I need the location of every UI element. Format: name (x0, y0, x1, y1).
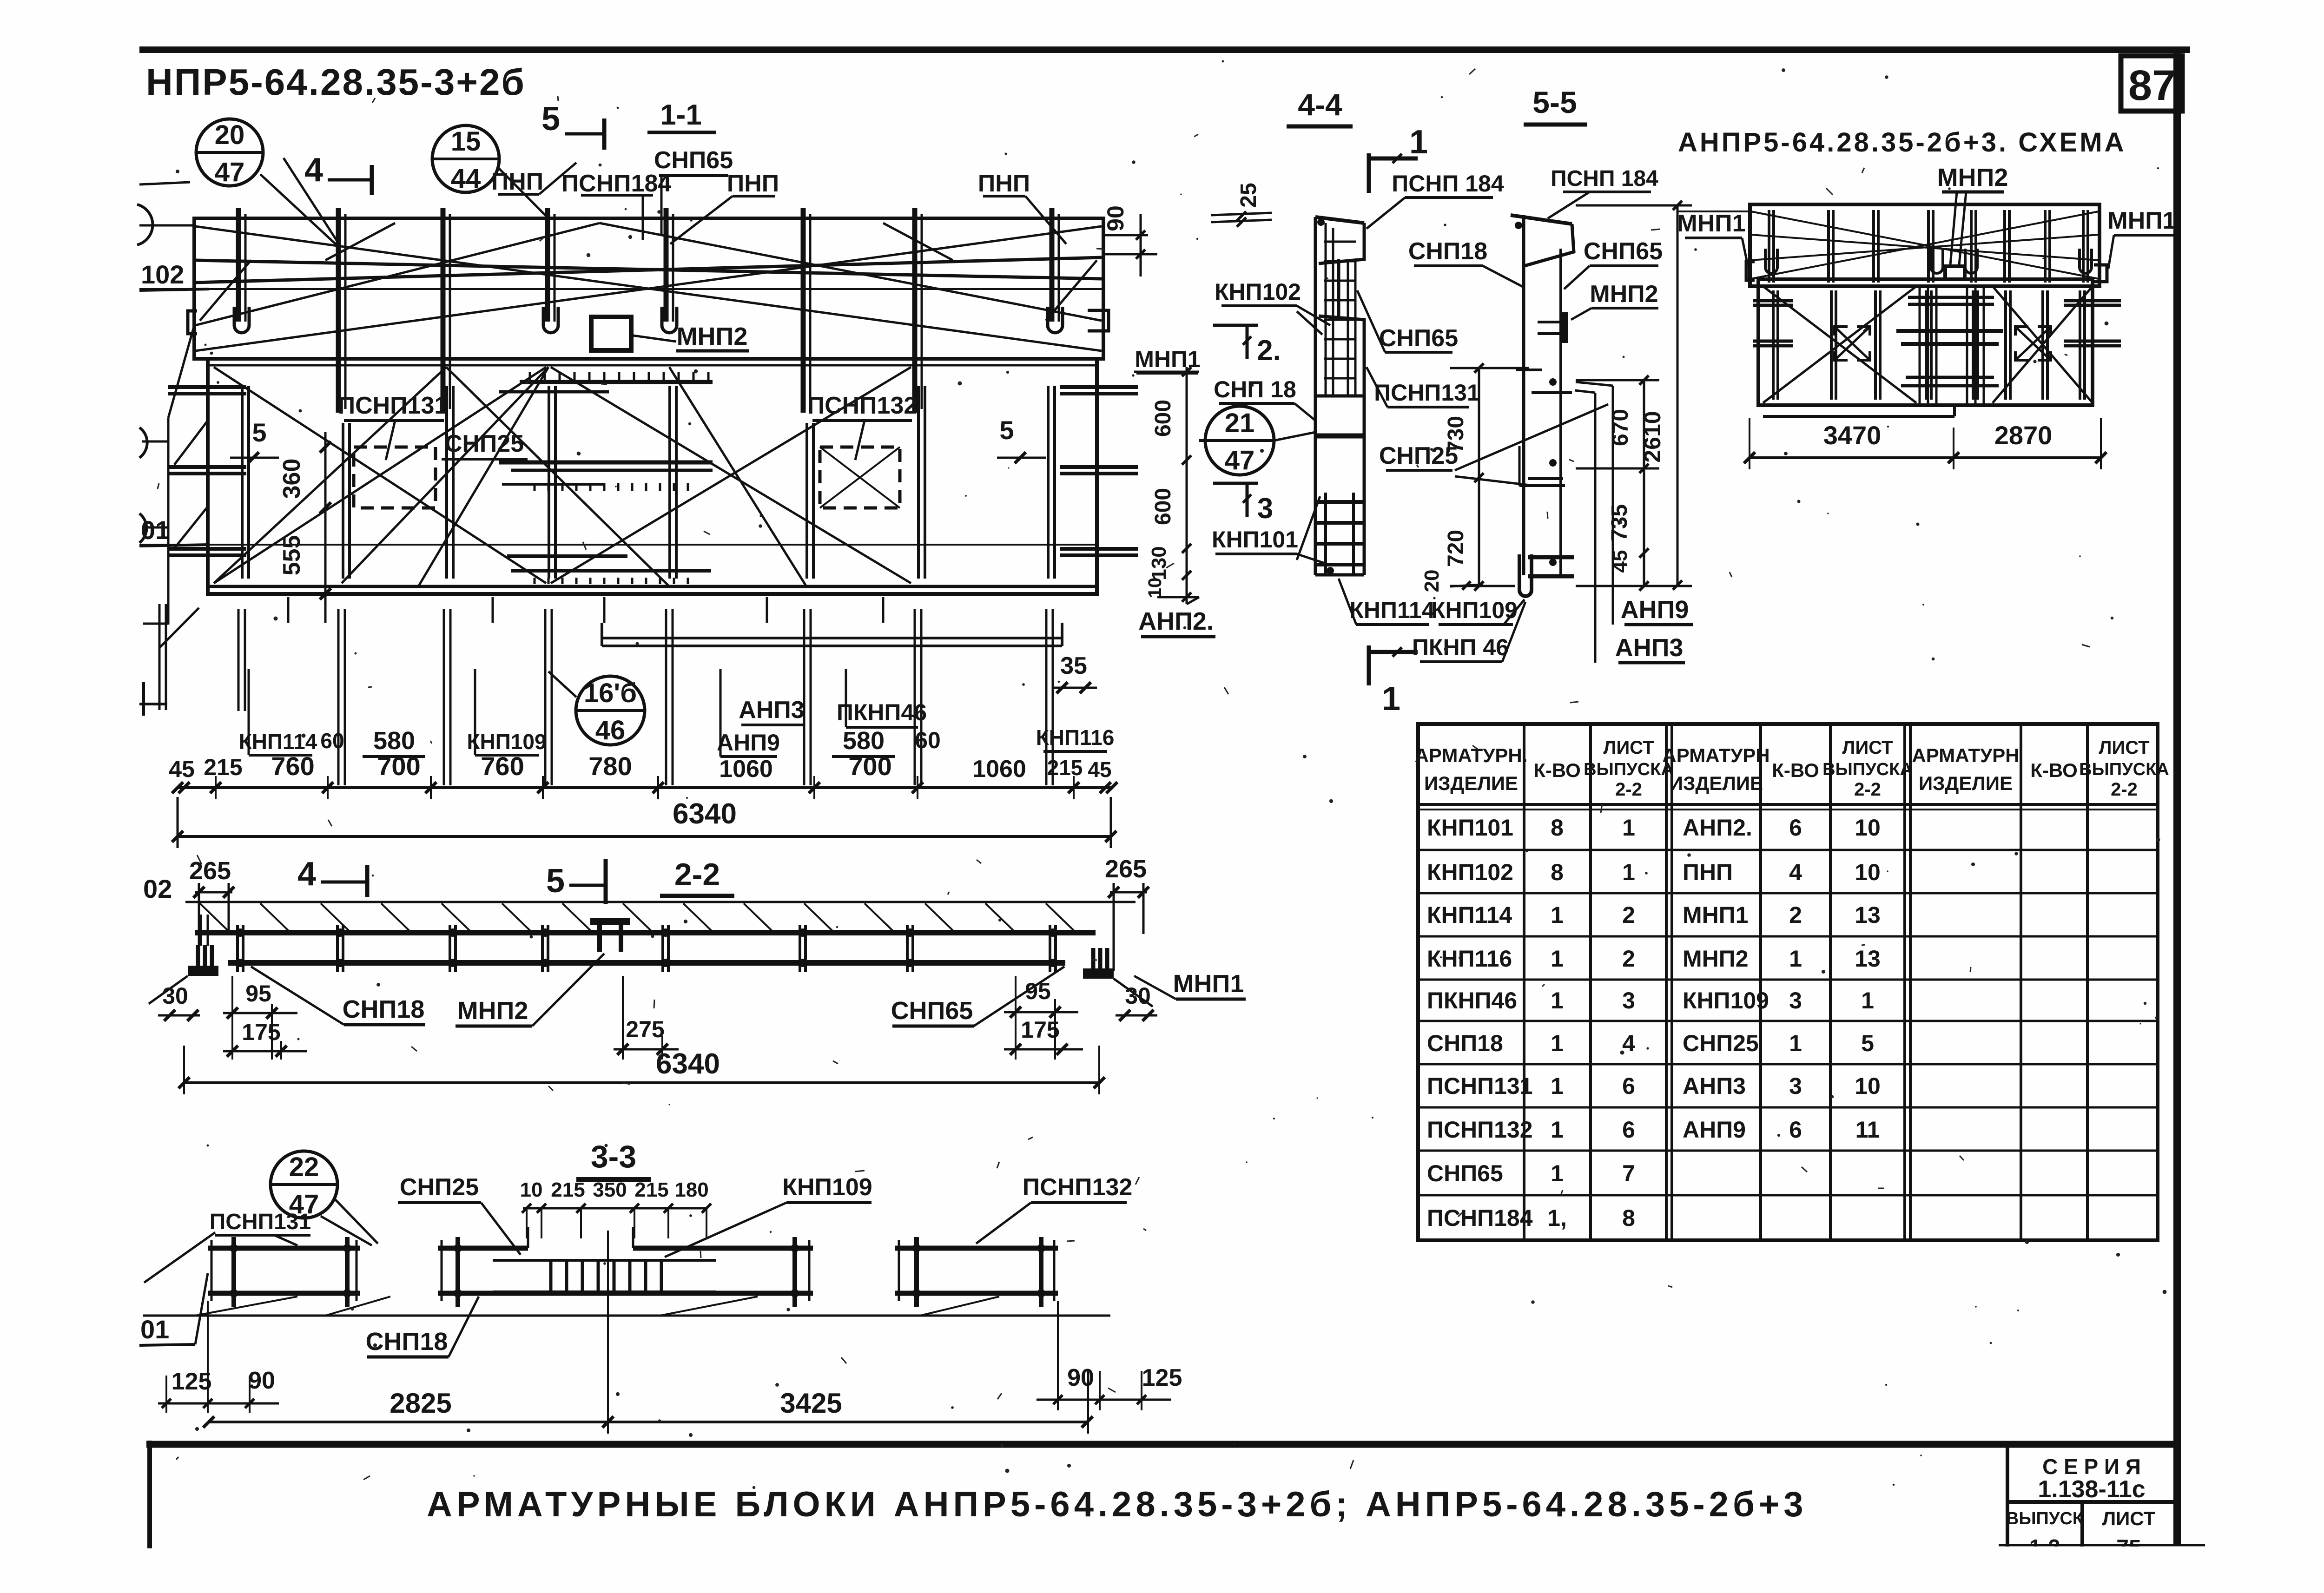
svg-text:5: 5 (252, 418, 266, 447)
svg-text:7: 7 (1622, 1160, 1635, 1186)
svg-text:215: 215 (1047, 756, 1083, 780)
plan lower band inner top line (208, 364, 1097, 367)
plan right edge anchor ticks (1060, 385, 1138, 389)
svg-text:265: 265 (189, 857, 231, 885)
balloon 15/44 (432, 125, 499, 192)
5-5 inner rail (1559, 249, 1562, 575)
svg-text:30: 30 (1125, 983, 1151, 1009)
section 2-2 top slab line (185, 901, 1136, 903)
schema vertical bars (1768, 210, 1770, 283)
svg-text:ВЫПУСКА: ВЫПУСКА (2079, 760, 2169, 779)
svg-text:КНП101: КНП101 (1212, 527, 1298, 553)
axis line 01 (139, 544, 1097, 546)
schema МНП1 bracket right (2094, 265, 2107, 282)
svg-text:ПКНП46: ПКНП46 (837, 699, 927, 725)
plan lower band outline (208, 359, 1097, 594)
svg-text:ИЗДЕЛИЕ: ИЗДЕЛИЕ (1669, 772, 1763, 794)
svg-text:2.: 2. (1257, 335, 1281, 367)
svg-text:30: 30 (162, 983, 188, 1009)
svg-text:МНП2: МНП2 (1937, 164, 2008, 191)
svg-text:1: 1 (1382, 680, 1400, 718)
plan bar U-hooks (234, 307, 249, 333)
5-5 leader lines to КНП109/ПКНП46 (1504, 599, 1525, 625)
svg-text:6: 6 (1622, 1073, 1635, 1099)
plan serrated splice bars top center (520, 380, 713, 384)
plan short bar stubs below band (287, 597, 290, 623)
svg-text:СНП18: СНП18 (1408, 238, 1487, 265)
svg-text:1060: 1060 (719, 756, 773, 783)
svg-text:СНП25: СНП25 (1683, 1030, 1759, 1056)
schema cross bracing upper (1751, 211, 2099, 279)
svg-text:1: 1 (1551, 987, 1564, 1014)
svg-text:ПСНП131: ПСНП131 (1427, 1073, 1533, 1099)
svg-text:3: 3 (1789, 987, 1802, 1014)
svg-text:АНП2.: АНП2. (1138, 607, 1214, 635)
svg-text:2: 2 (1622, 946, 1635, 972)
svg-text:20: 20 (215, 120, 245, 150)
svg-text:МНП2: МНП2 (457, 997, 528, 1025)
svg-text:60: 60 (915, 727, 941, 753)
leader diagonal bottom-left of plan (159, 608, 199, 648)
plan vertical stirrup bars upper band (hooked) (236, 208, 241, 322)
marker 3 with tick (1213, 482, 1258, 485)
svg-text:К-ВО: К-ВО (1533, 759, 1581, 781)
schema cross bracing lower left (1763, 286, 1916, 403)
svg-text:10: 10 (520, 1178, 543, 1201)
svg-text:1: 1 (1622, 815, 1635, 841)
svg-text:47: 47 (215, 157, 245, 187)
3-3 middle element (438, 1246, 528, 1251)
svg-text:2-2: 2-2 (1615, 779, 1642, 800)
svg-text:3: 3 (1257, 493, 1273, 525)
svg-text:46: 46 (595, 715, 626, 745)
svg-text:13: 13 (1855, 946, 1881, 972)
schema central splice cluster (1919, 288, 1921, 403)
svg-text:555: 555 (278, 535, 305, 576)
svg-text:АНПР5-64.28.35-2б+3. СХЕМА: АНПР5-64.28.35-2б+3. СХЕМА (1678, 127, 2126, 158)
plan dashed opening right (820, 447, 900, 508)
svg-text:87: 87 (2128, 62, 2176, 109)
svg-text:265: 265 (1105, 855, 1147, 883)
svg-text:3425: 3425 (780, 1388, 842, 1419)
5-5 dim 2610 (1677, 204, 1679, 586)
svg-text:МНП2: МНП2 (1683, 946, 1749, 972)
svg-text:2-2: 2-2 (674, 857, 720, 892)
svg-text:175: 175 (242, 1019, 280, 1045)
svg-text:К-ВО: К-ВО (2030, 759, 2078, 781)
svg-text:АРМАТУРН: АРМАТУРН (1912, 744, 2019, 766)
scan noise specks (1441, 96, 1443, 99)
schema МНП2 small rect (1945, 266, 1965, 279)
table column lines (1523, 724, 1525, 1240)
svg-text:45: 45 (169, 756, 195, 782)
svg-text:СНП25: СНП25 (445, 430, 524, 457)
svg-text:ЛИСТ: ЛИСТ (1603, 737, 1654, 758)
border frame top line (139, 46, 2190, 53)
svg-text:45: 45 (1088, 757, 1111, 782)
5-5 dim chain 670/735/45 (1643, 380, 1645, 586)
svg-text:275: 275 (626, 1016, 664, 1042)
svg-text:15: 15 (451, 126, 481, 157)
svg-text:600: 600 (1151, 488, 1175, 525)
3-3 bottom dim line 2825/3425 (208, 1421, 1088, 1423)
svg-text:КНП101: КНП101 (1427, 815, 1513, 841)
svg-text:3: 3 (1789, 1073, 1802, 1099)
svg-text:20: 20 (1420, 570, 1443, 592)
schema side anchor ticks (1753, 299, 1793, 303)
3-3 ground line (143, 1315, 1110, 1317)
svg-text:КНП102: КНП102 (1427, 859, 1513, 885)
svg-text:4-4: 4-4 (1298, 87, 1342, 122)
svg-text:760: 760 (481, 751, 524, 781)
svg-text:МНП2: МНП2 (1590, 281, 1658, 308)
svg-text:5-5: 5-5 (1532, 85, 1577, 119)
svg-text:215: 215 (551, 1178, 585, 1201)
svg-text:760: 760 (271, 751, 314, 781)
plan vertical stirrup bars through both bands (336, 208, 341, 413)
5-5 dim chain 730/720 (1478, 368, 1480, 586)
plan corner diagonals (200, 260, 251, 321)
svg-text:КНП109: КНП109 (1683, 987, 1769, 1014)
svg-text:580: 580 (373, 727, 415, 755)
svg-text:НПР5-64.28.35-3+2б: НПР5-64.28.35-3+2б (146, 61, 526, 103)
balloon 20/47 (196, 119, 263, 186)
svg-text:ПСНП131: ПСНП131 (210, 1210, 311, 1234)
svg-text:6340: 6340 (673, 798, 737, 830)
svg-text:600: 600 (1151, 400, 1175, 437)
svg-text:3-3: 3-3 (591, 1139, 636, 1174)
svg-text:3: 3 (1622, 987, 1635, 1014)
5-5 mid ties (1516, 369, 1542, 371)
svg-text:1: 1 (1551, 1160, 1564, 1186)
svg-text:КНП114: КНП114 (1427, 902, 1512, 928)
svg-text:90: 90 (1103, 205, 1129, 231)
svg-text:2: 2 (1789, 902, 1802, 928)
plan upper band outline (194, 218, 1103, 359)
svg-text:8: 8 (1622, 1205, 1635, 1231)
4-4 bottom ladder КНП101 (1324, 493, 1327, 575)
svg-text:ПКНП 46: ПКНП 46 (1412, 634, 1509, 660)
svg-text:СНП65: СНП65 (1379, 325, 1458, 352)
svg-text:6: 6 (1789, 1117, 1802, 1143)
svg-text:ЛИСТ: ЛИСТ (1842, 737, 1893, 758)
svg-text:4: 4 (304, 151, 323, 189)
svg-text:215: 215 (204, 754, 242, 780)
svg-text:95: 95 (245, 981, 271, 1007)
plan splice bars mid center (499, 461, 713, 465)
svg-text:МНП1: МНП1 (1173, 970, 1244, 998)
svg-text:90: 90 (248, 1367, 275, 1394)
4-4 column outline (1314, 217, 1317, 575)
svg-text:К-ВО: К-ВО (1772, 759, 1819, 781)
svg-text:ПСНП 184: ПСНП 184 (1551, 166, 1658, 191)
table header separator (1418, 803, 2158, 806)
balloon 16б/46 (576, 676, 645, 745)
svg-text:ПСНП132: ПСНП132 (1427, 1117, 1533, 1143)
svg-text:60: 60 (320, 729, 344, 753)
balloon 22/47 (271, 1151, 337, 1218)
svg-text:АНП9: АНП9 (1683, 1117, 1746, 1143)
svg-text:КНП102: КНП102 (1215, 279, 1301, 305)
plan left edge anchor ticks (168, 385, 246, 389)
plan upper band cross bracing (195, 260, 1102, 279)
svg-text:5: 5 (1861, 1030, 1874, 1056)
svg-text:С Е Р И Я: С Е Р И Я (2042, 1455, 2141, 1479)
svg-text:1: 1 (1551, 1030, 1564, 1056)
4-4 upper ladder КНП102/СНП65 (1325, 223, 1327, 396)
svg-text:700: 700 (377, 751, 420, 781)
svg-text:25: 25 (1236, 183, 1261, 207)
svg-text:АНП3: АНП3 (1615, 634, 1684, 662)
svg-text:1,: 1, (1547, 1205, 1567, 1231)
svg-text:44: 44 (451, 164, 481, 194)
svg-text:10: 10 (1145, 578, 1165, 599)
svg-text:10: 10 (1855, 859, 1881, 885)
svg-text:10: 10 (1855, 1073, 1881, 1099)
svg-text:22: 22 (289, 1152, 319, 1182)
title block box (2006, 1442, 2009, 1547)
svg-text:ВЫПУСКА: ВЫПУСКА (1584, 760, 1674, 779)
svg-text:47: 47 (1225, 445, 1255, 475)
dimension chain row 2 (6340) (177, 835, 1112, 838)
svg-text:360: 360 (278, 459, 305, 499)
svg-text:1: 1 (1551, 902, 1564, 928)
svg-text:ВЫПУСК: ВЫПУСК (2006, 1509, 2084, 1528)
svg-text:АНП3: АНП3 (1683, 1073, 1746, 1099)
svg-text:8: 8 (1551, 859, 1564, 885)
svg-text:130: 130 (1148, 546, 1170, 580)
svg-text:ВЫПУСКА: ВЫПУСКА (1822, 760, 1913, 779)
svg-text:1: 1 (1551, 946, 1564, 972)
svg-text:2-2: 2-2 (2111, 779, 2138, 800)
svg-text:6: 6 (1622, 1117, 1635, 1143)
schema upper band (1750, 204, 2100, 286)
balloon flag to plan corner (260, 174, 337, 245)
plan bottom-right offset strip (602, 637, 1062, 639)
svg-text:700: 700 (848, 751, 891, 781)
3-3 center ladder КНП109 (493, 1259, 716, 1262)
schema cross bracing lower right (1993, 286, 2093, 403)
svg-text:720: 720 (1444, 530, 1468, 567)
balloon 21/47 (1205, 406, 1274, 475)
4-4 bottom cut marker 1 (1367, 645, 1371, 685)
page edge white cut (1992, 1547, 2215, 1593)
parts table outline (1418, 724, 2158, 1240)
svg-text:350: 350 (593, 1178, 627, 1201)
border frame left stub (147, 1441, 152, 1548)
3-3 center line (607, 1231, 609, 1434)
svg-text:АНП3: АНП3 (739, 697, 804, 724)
svg-text:КНП109: КНП109 (1431, 597, 1518, 623)
svg-text:ПСНП132: ПСНП132 (1023, 1174, 1133, 1201)
svg-text:КНП116: КНП116 (1427, 946, 1512, 972)
marker 2 with tick (1213, 324, 1258, 327)
svg-text:МНП1: МНП1 (1677, 210, 1745, 237)
svg-text:СНП65: СНП65 (891, 997, 973, 1025)
svg-text:2870: 2870 (1994, 421, 2053, 450)
svg-text:180: 180 (674, 1178, 708, 1201)
plan lower band inner bottom line (208, 585, 1097, 588)
svg-text:8: 8 (1551, 815, 1564, 841)
svg-text:МНП1: МНП1 (2107, 207, 2176, 234)
schema МНП1 bracket left (1746, 262, 1755, 280)
svg-text:СНП65: СНП65 (1584, 238, 1663, 265)
svg-text:102: 102 (141, 260, 184, 289)
svg-text:2: 2 (1622, 902, 1635, 928)
svg-text:1: 1 (1551, 1117, 1564, 1143)
section 2-2 left end anchor МНП1 (200, 915, 202, 946)
svg-text:СНП18: СНП18 (366, 1328, 448, 1356)
svg-text:1.138-11с: 1.138-11с (2038, 1476, 2145, 1503)
svg-text:2825: 2825 (390, 1388, 451, 1419)
section 2-2 tie sets (236, 925, 239, 972)
svg-text:СНП18: СНП18 (343, 995, 425, 1023)
svg-text:ЛИСТ: ЛИСТ (2099, 737, 2149, 758)
svg-text:580: 580 (843, 727, 885, 755)
schema lower band (1758, 279, 2093, 405)
schema bottom-left extension (1763, 404, 1954, 407)
svg-text:КНП114: КНП114 (239, 730, 317, 754)
svg-text:ПСНП132: ПСНП132 (807, 392, 918, 419)
svg-text:5: 5 (546, 862, 565, 900)
svg-text:ПНП: ПНП (491, 168, 543, 195)
schema dim extension to 2610 line (1677, 211, 1749, 212)
svg-text:ПНП: ПНП (1683, 859, 1733, 885)
svg-text:21: 21 (1225, 408, 1255, 438)
svg-text:ПСНП131: ПСНП131 (1374, 380, 1480, 406)
svg-text:5: 5 (541, 100, 560, 138)
svg-text:СНП65: СНП65 (1427, 1160, 1503, 1186)
section 2-2 top chord (bold) (195, 930, 1096, 935)
5-5 bottom anchor (1528, 555, 1574, 560)
svg-text:3470: 3470 (1823, 421, 1882, 450)
svg-text:ПКНП46: ПКНП46 (1427, 987, 1517, 1014)
left cut-off leader arcs (137, 204, 152, 245)
svg-text:МНП1: МНП1 (1683, 902, 1749, 928)
leader diagonals from left labels (168, 325, 194, 418)
plan dashed opening left (354, 447, 436, 508)
dim extension legs below plan (337, 609, 340, 785)
4-4 left dim chain 600/600/130/10 (1186, 367, 1188, 604)
schema corner marks lower band (1835, 327, 1848, 336)
svg-text:АНП9: АНП9 (717, 730, 780, 756)
title block thin bottom page line (1999, 1544, 2205, 1547)
svg-text:АНП9: АНП9 (1621, 596, 1689, 624)
svg-text:АРМАТУРН.: АРМАТУРН. (1415, 744, 1528, 766)
svg-text:СНП18: СНП18 (1427, 1030, 1503, 1056)
svg-text:01: 01 (140, 1315, 169, 1344)
plan left bracket mark (188, 311, 197, 334)
svg-text:01: 01 (141, 515, 170, 545)
section 2-2 bottom chord (bold) (228, 960, 1065, 966)
svg-text:02: 02 (143, 874, 172, 903)
svg-text:1: 1 (1789, 1030, 1802, 1056)
section 2-2 bottom dim 6340 (183, 1081, 1100, 1084)
section 2-2 hatching (200, 903, 229, 931)
3-3 left element (208, 1246, 360, 1251)
sheet number box 87 (2121, 56, 2182, 111)
svg-text:125: 125 (172, 1368, 212, 1395)
svg-text:125: 125 (1142, 1364, 1182, 1391)
section 2-2 МНП2 center element (590, 918, 630, 925)
svg-text:95: 95 (1025, 978, 1051, 1004)
svg-text:КНП109: КНП109 (782, 1174, 872, 1201)
dimension chain row 1 (177, 786, 1112, 789)
plan splice bars bottom center (507, 554, 627, 558)
axis line 102 (139, 288, 1103, 290)
svg-text:2-2: 2-2 (1854, 779, 1881, 800)
svg-text:4: 4 (1789, 859, 1802, 885)
svg-text:КНП116: КНП116 (1036, 725, 1115, 750)
border frame bottom line (146, 1441, 2181, 1448)
svg-text:ПСНП131: ПСНП131 (338, 392, 448, 419)
svg-text:780: 780 (588, 751, 632, 781)
svg-text:6340: 6340 (656, 1048, 720, 1080)
svg-text:ПСНП184: ПСНП184 (561, 170, 672, 197)
svg-text:ПНП: ПНП (978, 170, 1030, 197)
svg-text:АРМАТУРН: АРМАТУРН (1662, 744, 1769, 766)
svg-text:5: 5 (999, 415, 1014, 445)
svg-text:АНП2.: АНП2. (1683, 815, 1752, 841)
svg-text:1: 1 (1622, 859, 1635, 885)
section 2-2 right end anchor (1083, 968, 1114, 979)
schema U-hooks (1765, 249, 1777, 273)
svg-text:СНП 18: СНП 18 (1214, 376, 1296, 402)
svg-text:1-1: 1-1 (660, 99, 702, 131)
table row lines (1418, 849, 2158, 851)
svg-text:175: 175 (1021, 1017, 1059, 1043)
schema dim line 3470/2870 (1749, 456, 2102, 459)
svg-text:2610: 2610 (1639, 411, 1665, 462)
svg-text:СНП25: СНП25 (400, 1174, 479, 1201)
svg-text:11: 11 (1855, 1117, 1880, 1143)
svg-text:35: 35 (1060, 652, 1087, 679)
svg-text:16'б: 16'б (584, 678, 637, 708)
svg-text:6: 6 (1789, 815, 1802, 841)
plan vertical stirrup bars lower band (241, 386, 244, 579)
5-5 column outline (1522, 215, 1525, 575)
svg-text:ИЗДЕЛИЕ: ИЗДЕЛИЕ (1919, 772, 2013, 794)
svg-text:90: 90 (1067, 1364, 1094, 1391)
plan right bracket mark (1088, 310, 1109, 331)
svg-text:ПСНП184: ПСНП184 (1427, 1205, 1533, 1231)
svg-text:КНП114: КНП114 (1349, 597, 1434, 623)
plan МНП2 insert rect (591, 317, 631, 350)
border frame right line (2173, 46, 2181, 1545)
svg-text:ЛИСТ: ЛИСТ (2102, 1507, 2156, 1529)
svg-text:ПСНП 184: ПСНП 184 (1392, 171, 1504, 197)
svg-text:ПНП: ПНП (727, 170, 779, 197)
plan lower band cross bracing (214, 367, 546, 583)
svg-text:АРМАТУРНЫЕ БЛОКИ АНПР5-64.28.3: АРМАТУРНЫЕ БЛОКИ АНПР5-64.28.35-3+2б; АН… (427, 1485, 1808, 1524)
svg-text:215: 215 (634, 1178, 668, 1201)
svg-text:10: 10 (1855, 815, 1881, 841)
svg-text:4: 4 (297, 856, 316, 893)
4-4 middle slab bold rung (1315, 434, 1364, 439)
5-5 МНП2 detail (1562, 312, 1568, 343)
svg-text:КНП109: КНП109 (467, 730, 546, 754)
3-3 diagonals to ground (195, 1297, 297, 1316)
svg-text:13: 13 (1855, 902, 1881, 928)
svg-text:ИЗДЕЛИЕ: ИЗДЕЛИЕ (1424, 772, 1518, 794)
svg-text:1: 1 (1789, 946, 1802, 972)
3-3 right element (895, 1246, 1058, 1251)
svg-text:МНП2: МНП2 (677, 323, 748, 350)
svg-text:СНП25: СНП25 (1379, 442, 1458, 469)
svg-text:1: 1 (1409, 124, 1428, 161)
svg-text:1060: 1060 (972, 756, 1026, 783)
svg-text:1: 1 (1861, 987, 1874, 1014)
